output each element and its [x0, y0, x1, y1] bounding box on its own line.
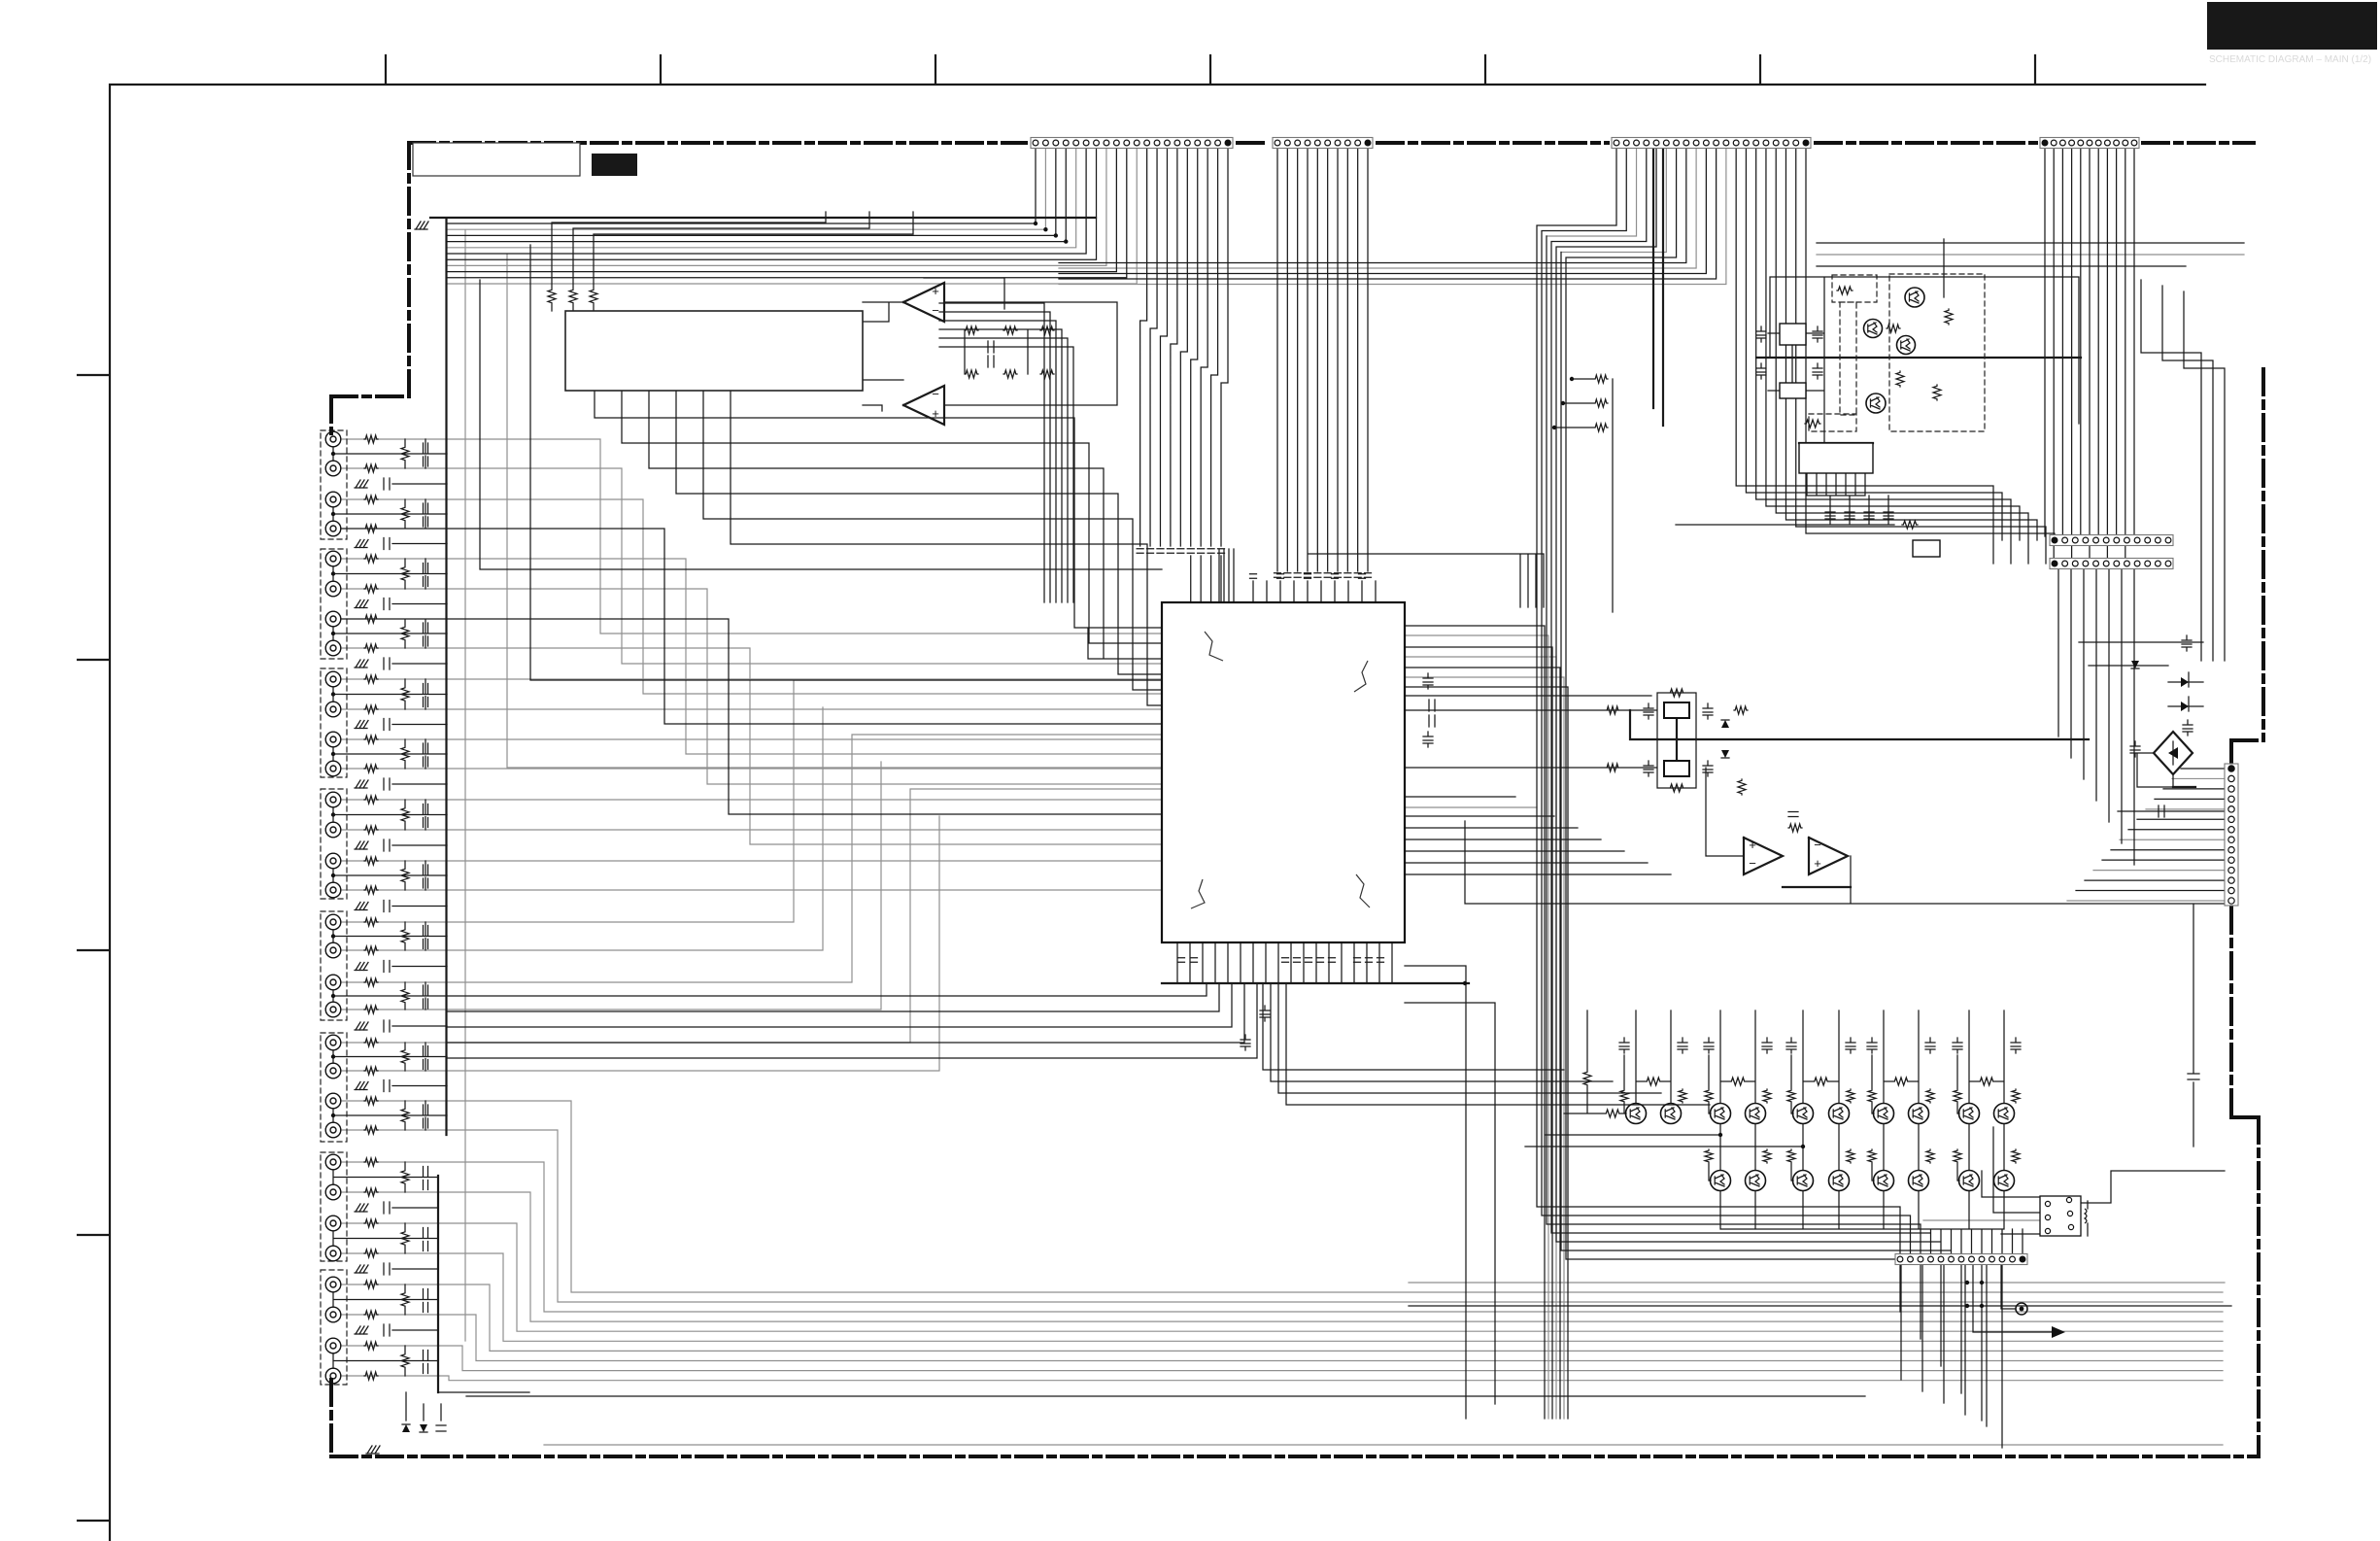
svg-text:+: + — [1749, 838, 1756, 852]
svg-text:−: − — [1749, 856, 1756, 871]
svg-text:−: − — [932, 303, 939, 318]
svg-text:+: + — [1814, 856, 1821, 871]
svg-text:−: − — [1814, 838, 1821, 852]
svg-text:+: + — [932, 284, 939, 298]
svg-text:+: + — [932, 406, 939, 421]
svg-text:SCHEMATIC DIAGRAM – MAIN (1/2): SCHEMATIC DIAGRAM – MAIN (1/2) — [2209, 54, 2371, 65]
svg-text:−: − — [932, 387, 939, 401]
